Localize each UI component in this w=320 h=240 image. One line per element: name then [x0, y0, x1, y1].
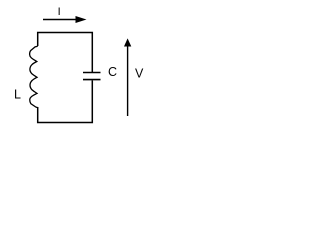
- svg-text:V: V: [135, 67, 144, 81]
- svg-text:L: L: [14, 88, 21, 102]
- svg-text:I: I: [58, 6, 61, 18]
- svg-text:C: C: [108, 65, 117, 79]
